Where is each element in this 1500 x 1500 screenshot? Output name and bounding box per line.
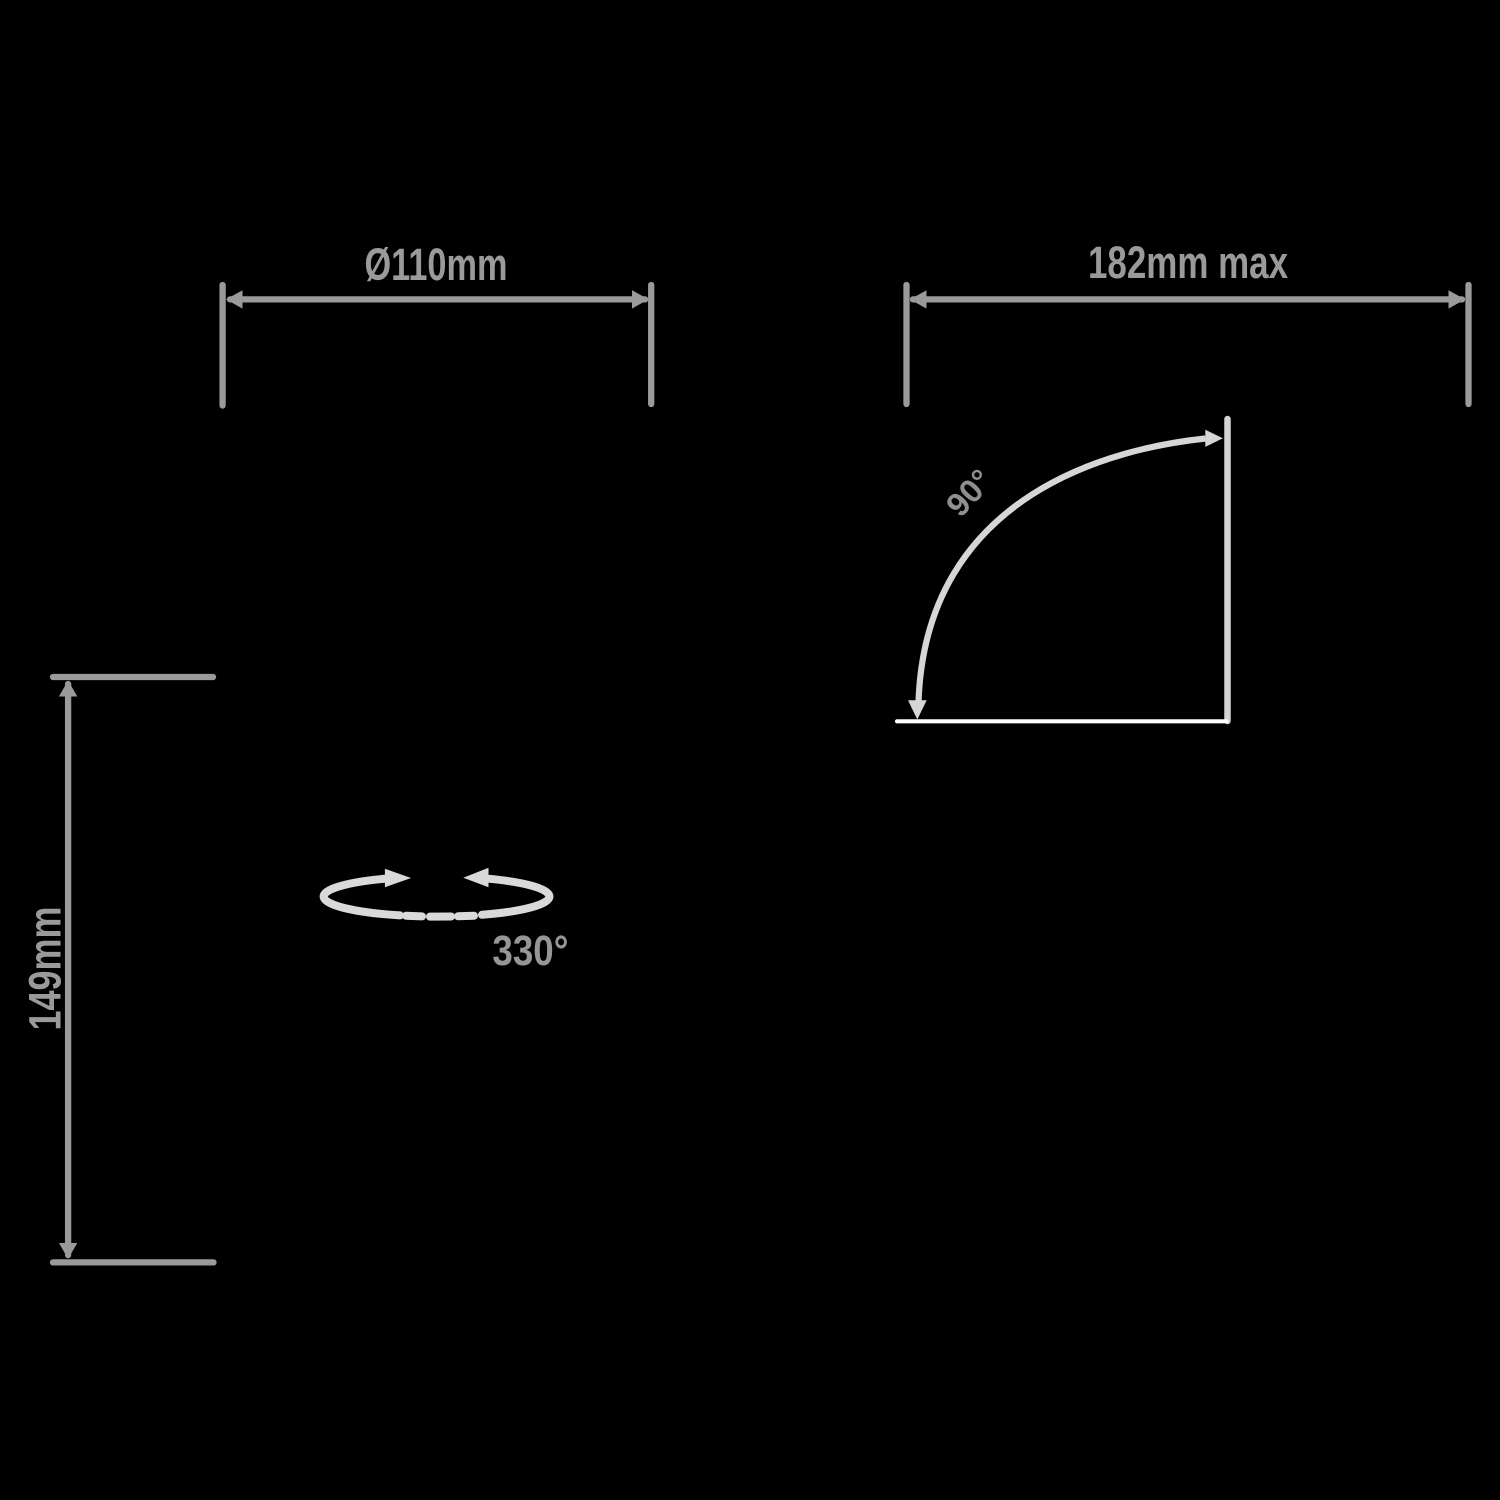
svg-text:330°: 330° [492, 927, 568, 975]
svg-text:Ø110mm: Ø110mm [365, 239, 508, 290]
svg-text:182mm max: 182mm max [1088, 237, 1288, 288]
svg-text:149mm: 149mm [20, 907, 71, 1031]
